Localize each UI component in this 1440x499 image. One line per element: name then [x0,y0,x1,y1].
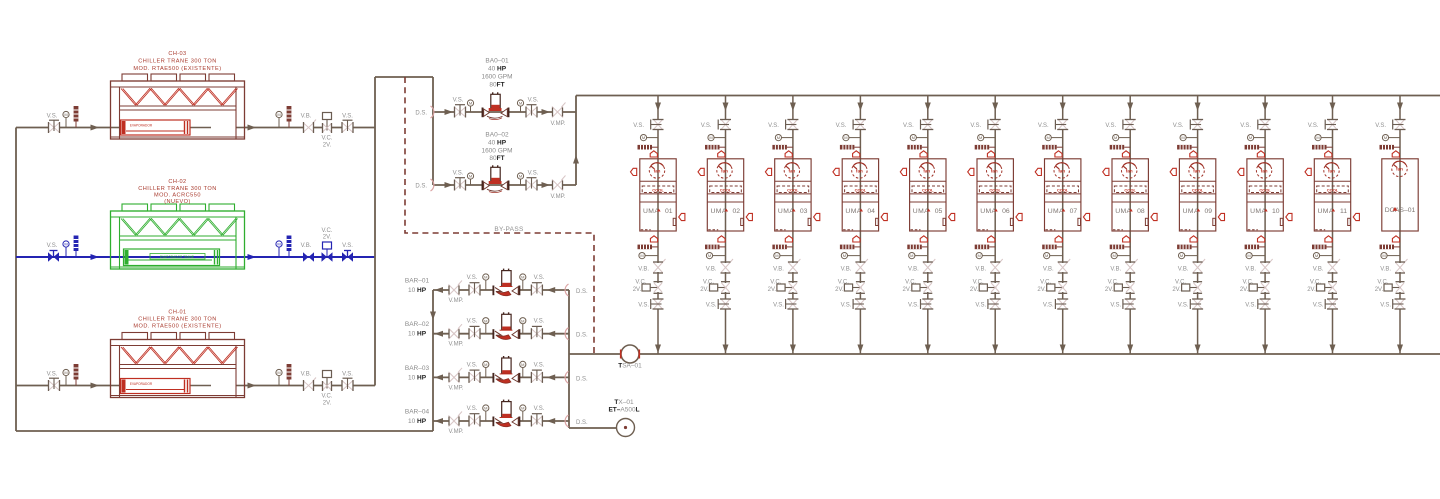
svg-text:UMA: UMA [980,208,996,215]
svg-text:M: M [844,135,847,140]
sensor UMA-11 return [1312,245,1333,250]
label BA0-02 data [481,132,512,163]
flow arrow out of branch UMA-06 [992,345,998,354]
svg-text:V.C.: V.C. [770,280,781,286]
instrument M BAR-04 discharge [483,405,489,421]
svg-text:M: M [1249,135,1252,140]
svg-text:M: M [521,406,524,411]
air arrow below UMA-09 [1190,236,1197,242]
instrument M UMA-01 return [639,253,658,259]
label V.C. 2V UMA-07 [1037,280,1051,294]
svg-text:COOL: COOL [1327,187,1339,192]
svg-text:COOL: COOL [720,187,732,192]
svg-text:V.C.: V.C. [703,280,714,286]
instrument M UMA-10 return [1246,253,1265,259]
wire CH-02 inlet/outlet pipe (blue) [16,256,375,258]
label TX-01 ET-A500L [608,399,639,414]
flow arrow BAR-01 suction [547,287,556,293]
svg-text:fan: fan [923,168,930,173]
valve V.S. CH-02 outlet [342,251,353,262]
label V.C. 2V UMA-09 [1172,280,1186,294]
valve V.S. CH-01 outlet [342,378,353,391]
valve V.S. BAR-02 discharge [469,326,480,339]
label V.C. 2V CH-02 [321,228,332,241]
valve V.B. CH-03 outlet [304,120,317,134]
instrument M UMA-07 return [1044,253,1063,259]
flow arrow out of branch UMA-02 [723,345,729,354]
svg-text:V.B.: V.B. [1043,267,1054,273]
instrument M BAR-01 suction [520,274,526,290]
flow arrow into branch UMA-01 [655,103,661,112]
pump BA0-02 [483,165,509,192]
pipe AHU branch UMA-09 [1197,96,1199,355]
svg-text:V.S.: V.S. [773,303,784,309]
pipe AHU branch UMA-05 [927,96,929,355]
svg-text:M: M [64,112,67,117]
svg-text:UMA: UMA [913,208,929,215]
wire pump suction drop [432,77,434,185]
valve V.S. CH-02 inlet [48,251,59,262]
air arrow left of UMA-11 [1305,168,1311,175]
svg-text:CHILLER TRANE 300 TON: CHILLER TRANE 300 TON [138,186,217,192]
svg-text:V.B.: V.B. [1245,267,1256,273]
instrument M CH-01 outlet [276,369,282,385]
svg-text:M: M [1113,253,1116,258]
valve V.S. UMA-06 return [988,299,1001,309]
svg-text:04: 04 [867,208,875,215]
svg-text:D.S.: D.S. [576,376,588,382]
air arrow left of UMA-02 [698,168,704,175]
flow arrow BAR-02 discharge [435,331,444,337]
valve V.S. UMA-01 return [651,299,664,309]
svg-text:V.B.: V.B. [908,267,919,273]
valve V.S. UMA-09 supply [1190,120,1203,130]
svg-text:M: M [708,253,711,258]
air arrow above UMA-02 [718,151,725,157]
svg-text:V.MP.: V.MP. [550,121,565,127]
valve V.MP. BA0-02 [552,176,566,191]
svg-text:V.S.: V.S. [1375,123,1386,129]
flow arrow out of CH-01 [248,383,257,389]
svg-text:V.MP.: V.MP. [448,298,463,304]
svg-text:V.S.: V.S. [970,123,981,129]
valve V.S. BAR-01 discharge [469,283,480,296]
air arrow left of UMA-04 [833,168,839,175]
svg-text:M: M [979,135,982,140]
svg-text:M: M [484,362,487,367]
valve V.B. UMA-07 [1057,259,1070,273]
svg-text:M: M [709,135,712,140]
svg-text:fan: fan [856,168,863,173]
sensor UMA-08 supply [1110,145,1131,150]
valve V.S. UMA-06 supply [988,120,1001,130]
sensor CH-02 inlet [74,236,79,258]
valve V.S. BAR-03 discharge [469,370,480,383]
svg-text:V.S.: V.S. [975,303,986,309]
wire BAR discharge collector [432,290,434,431]
svg-text:V.B.: V.B. [1313,267,1324,273]
svg-text:D.S.: D.S. [415,184,427,190]
svg-text:EVAPORADOR: EVAPORADOR [130,382,153,386]
flow arrow into branch UMA-08 [1127,103,1133,112]
valve V.B. UMA-01 [653,259,666,273]
air arrow right of UMA-10 [1286,213,1292,220]
svg-text:M: M [1045,253,1048,258]
instrument M CH-03 outlet [276,111,282,127]
svg-text:V.C.: V.C. [1040,280,1051,286]
chiller CH-02 [111,204,245,269]
instrument M BAR-01 discharge [483,274,489,290]
instrument M BA0-01 discharge [517,100,523,112]
instrument M UMA-07 supply [1045,135,1063,141]
svg-text:V.S.: V.S. [1308,123,1319,129]
valve V.S. UMA-05 return [921,299,934,309]
wire expansion tank line [569,427,616,429]
svg-text:fan: fan [1058,168,1065,173]
svg-text:V.S.: V.S. [467,275,478,281]
instrument M UMA-01 supply [640,135,658,141]
valve V.S. BAR-04 suction [531,414,542,427]
sensor UMA-07 supply [1042,145,1063,150]
wire collector top jog [375,76,433,78]
svg-text:07: 07 [1070,208,1078,215]
svg-text:V.S.: V.S. [638,303,649,309]
instrument M UMA-02 supply [708,135,726,141]
instrument M CH-02 inlet [63,241,69,257]
flow arrow into CH-02 [91,254,100,260]
valve V.C. 2V UMA-06 [979,282,1000,294]
wire top supply header [576,95,1440,97]
air arrow right of UMA-11 [1353,213,1359,220]
svg-text:fan: fan [1193,168,1200,173]
svg-text:CH-01: CH-01 [168,310,186,316]
svg-text:UMA: UMA [778,208,794,215]
valve V.S. DOAS-01 supply [1393,120,1406,130]
pump BAR-04 [493,400,519,427]
AHU unit UMA-01 [640,159,676,231]
wire left return riser [15,128,17,432]
svg-text:fan: fan [991,168,998,173]
valve V.MP. BAR-03 [449,368,463,383]
svg-text:M: M [519,101,522,106]
flow arrow into branch UMA-09 [1195,103,1201,112]
valve V.C. 2V UMA-10 [1249,282,1270,294]
wire CH-03 outlet pipe [245,127,376,129]
air arrow right of UMA-01 [679,213,685,220]
label V.C. 2V CH-03 [321,136,332,149]
svg-text:D.S.: D.S. [415,111,427,117]
valve V.B. DOAS-01 [1395,259,1408,273]
svg-text:V.S.: V.S. [467,319,478,325]
instrument M UMA-08 return [1111,253,1130,259]
svg-text:2V.: 2V. [903,287,912,293]
valve V.MP. BAR-01 [449,281,463,296]
label V.C. 2V UMA-08 [1105,280,1119,294]
svg-text:fan: fan [1126,168,1133,173]
svg-text:V.S.: V.S. [528,171,539,177]
pipe inside CH-01 [111,385,121,387]
chiller CH-01 [111,333,245,398]
svg-text:BA0–02: BA0–02 [485,132,509,139]
valve V.S. UMA-03 return [786,299,799,309]
svg-text:M: M [469,101,472,106]
label BAR-01 [405,278,430,295]
svg-text:M: M [521,362,524,367]
svg-text:M: M [484,406,487,411]
sensor CH-02 outlet [287,236,292,258]
instrument M UMA-11 supply [1315,135,1333,141]
air arrow below UMA-05 [920,236,927,242]
svg-text:V.C.: V.C. [838,280,849,286]
svg-text:M: M [1382,253,1385,258]
valve V.S. BA0-02 suction [455,178,466,191]
valve V.S. DOAS-01 return [1393,299,1406,309]
flow arrow out of branch UMA-08 [1127,345,1133,354]
wire pump BAR-04 line [433,420,569,422]
flow arrow BAR-04 suction [547,418,556,424]
valve V.B. CH-02 outlet [303,252,314,261]
flow arrow into branch UMA-05 [925,103,931,112]
wire pump BAR-03 line [433,376,569,378]
svg-text:V.S.: V.S. [342,243,353,249]
AHU unit UMA-05 [910,159,946,231]
flow arrow BA0-02 suction [445,182,454,188]
air arrow above UMA-01 [650,151,657,157]
air arrow right of UMA-09 [1218,213,1224,220]
valve V.S. UMA-02 supply [718,120,731,130]
instrument M CH-01 inlet [63,369,69,385]
svg-text:08: 08 [1137,208,1145,215]
valve V.S. UMA-07 supply [1055,120,1068,130]
pipe AHU branch UMA-02 [725,96,727,355]
svg-text:V.S.: V.S. [47,243,58,249]
svg-text:V.S.: V.S. [1178,303,1189,309]
sensor UMA-09 return [1177,245,1198,250]
svg-text:2V.: 2V. [1172,287,1181,293]
instrument M UMA-10 supply [1248,135,1266,141]
svg-text:V.MP.: V.MP. [550,194,565,200]
svg-text:TSA–01: TSA–01 [618,363,642,370]
svg-text:V.S.: V.S. [1173,123,1184,129]
svg-text:BY-PASS: BY-PASS [494,226,524,233]
wire return header left segment [569,353,621,355]
svg-text:V.MP.: V.MP. [448,342,463,348]
AHU unit UMA-09 [1179,159,1215,231]
pipe AHU branch UMA-04 [859,96,861,355]
svg-text:M: M [777,135,780,140]
svg-text:COOL: COOL [1259,187,1271,192]
svg-text:V.MP.: V.MP. [448,429,463,435]
flow arrow into branch UMA-03 [790,103,796,112]
flow arrow out of CH-03 [248,125,257,131]
flow arrow into branch UMA-02 [723,103,729,112]
flow arrow BAR-03 discharge [435,374,444,380]
label V.C. 2V CH-01 [321,394,332,407]
sensor UMA-10 supply [1245,145,1266,150]
sensor UMA-03 return [772,245,793,250]
svg-text:V.S.: V.S. [836,123,847,129]
instrument M UMA-09 return [1179,253,1198,259]
air arrow above UMA-03 [785,151,792,157]
svg-text:COOL: COOL [1124,187,1136,192]
valve V.C. 2V UMA-05 [912,282,933,294]
air arrow above UMA-06 [987,151,994,157]
AHU unit UMA-07 [1045,159,1081,231]
svg-text:2V.: 2V. [1375,287,1384,293]
sensor UMA-09 supply [1177,145,1198,150]
air arrow above UMA-09 [1190,151,1197,157]
svg-text:V.S.: V.S. [342,114,353,120]
svg-text:V.S.: V.S. [1313,303,1324,309]
svg-text:2V.: 2V. [835,287,844,293]
flow arrow out of branch UMA-01 [655,345,661,354]
flow arrow into branch UMA-10 [1262,103,1268,112]
valve V.S. BAR-04 discharge [469,414,480,427]
svg-text:V.C.: V.C. [1310,280,1321,286]
svg-text:(NUEVO): (NUEVO) [164,199,190,205]
svg-text:V.C.: V.C. [905,280,916,286]
svg-text:D.S.: D.S. [576,289,588,295]
valve V.S. CH-03 inlet [49,120,60,133]
AHU unit UMA-11 [1314,159,1350,231]
instrument M BAR-02 suction [520,318,526,334]
svg-text:M: M [1316,135,1319,140]
valve V.B. UMA-09 [1192,259,1205,273]
valve V.B. UMA-02 [720,259,733,273]
pipe AHU branch UMA-08 [1129,96,1131,355]
wire CH-01 outlet pipe [245,385,376,387]
label V.C. 2V UMA-10 [1240,280,1254,294]
sensor UMA-04 supply [840,145,861,150]
svg-text:MOD. RTAE500 (EXISTENTE): MOD. RTAE500 (EXISTENTE) [133,66,221,72]
valve V.C. 2V UMA-09 [1182,282,1203,294]
valve V.C. 2V UMA-03 [777,282,798,294]
flow arrow out of branch UMA-11 [1330,345,1336,354]
air arrow above UMA-05 [920,151,927,157]
svg-text:D.S.: D.S. [576,333,588,339]
valve V.C. 2V CH-01 outlet [323,371,332,392]
valve V.C. 2V UMA-07 [1047,282,1068,294]
flow arrow out of branch UMA-05 [925,345,931,354]
label V.C. 2V DOAS-01 [1375,280,1389,294]
instrument M CH-02 outlet [276,241,282,257]
svg-text:M: M [1047,135,1050,140]
svg-text:V.B.: V.B. [301,243,312,249]
svg-text:V.B.: V.B. [706,267,717,273]
flow arrow out of CH-02 [248,254,257,260]
svg-text:V.S.: V.S. [47,114,58,120]
svg-text:BAR–04: BAR–04 [405,409,430,416]
svg-text:2V.: 2V. [970,287,979,293]
svg-text:V.C.: V.C. [1175,280,1186,286]
valve V.C. 2V UMA-11 [1317,282,1338,294]
air arrow below UMA-11 [1325,236,1332,242]
air arrow above UMA-10 [1257,151,1264,157]
flow arrow BAR-01 discharge [435,287,444,293]
svg-text:V.C.: V.C. [1242,280,1253,286]
svg-text:V.S.: V.S. [706,303,717,309]
air arrow below DOAS-01 [1392,236,1399,242]
air arrow right of UMA-06 [1016,213,1022,220]
svg-text:DOAS–01: DOAS–01 [1385,207,1416,214]
svg-text:CHILLER TRANE 300 TON: CHILLER TRANE 300 TON [138,59,217,65]
instrument M BA0-02 suction [467,173,473,185]
svg-text:V.S.: V.S. [903,123,914,129]
svg-text:M: M [775,253,778,258]
air arrow below UMA-03 [785,236,792,242]
svg-text:2V.: 2V. [1307,287,1316,293]
svg-text:V.C.: V.C. [1377,280,1388,286]
valve V.S. BAR-02 suction [531,326,542,339]
svg-text:M: M [469,174,472,179]
flow arrow BAR-02 suction [547,331,556,337]
sensor UMA-04 return [840,245,861,250]
flow arrow BAR collector down [430,312,436,321]
svg-text:V.S.: V.S. [534,275,545,281]
valve V.C. 2V CH-03 outlet [323,113,332,134]
instrument M UMA-03 return [774,253,793,259]
instrument M DOAS-01 supply [1382,135,1400,141]
instrument M UMA-06 supply [978,135,996,141]
air arrow above UMA-07 [1055,151,1062,157]
svg-text:BAR–03: BAR–03 [405,365,430,372]
valve V.S. UMA-10 supply [1258,120,1271,130]
pipe AHU branch UMA-06 [994,96,996,355]
svg-text:CHILLER TRANE 300 TON: CHILLER TRANE 300 TON [138,317,217,323]
pipe AHU branch UMA-07 [1062,96,1064,355]
valve V.S. UMA-10 return [1258,299,1271,309]
air arrow right of UMA-02 [746,213,752,220]
svg-text:V.S.: V.S. [908,303,919,309]
wire supply riser [575,96,577,186]
air separator TSA-01 [621,345,640,363]
valve V.C. 2V UMA-02 [710,282,731,294]
label CH-03 title [133,51,221,72]
svg-text:UMA: UMA [1250,208,1266,215]
svg-text:UMA: UMA [1183,208,1199,215]
svg-text:CH-02: CH-02 [168,179,186,185]
svg-text:2V.: 2V. [1240,287,1249,293]
air arrow right of UMA-08 [1151,213,1157,220]
svg-text:UMA: UMA [643,208,659,215]
valve V.S. UMA-07 return [1055,299,1068,309]
svg-text:M: M [912,135,915,140]
svg-text:1600 GPM: 1600 GPM [481,74,512,81]
label BAR-02 [405,321,430,338]
svg-text:V.B.: V.B. [301,372,312,378]
label V.C. 2V UMA-05 [903,280,917,294]
svg-text:V.B.: V.B. [1380,267,1391,273]
AHU unit UMA-02 [707,159,743,231]
wire pump BA0-02 line [433,184,576,186]
svg-text:V.S.: V.S. [342,372,353,378]
instrument M UMA-08 supply [1113,135,1131,141]
air arrow left of UMA-09 [1170,168,1176,175]
flow arrow into branch UMA-11 [1330,103,1336,112]
svg-text:COOL: COOL [1192,187,1204,192]
svg-text:2V.: 2V. [1037,287,1046,293]
pipe AHU branch UMA-01 [657,96,659,355]
svg-text:V.S.: V.S. [453,98,464,104]
svg-text:UMA: UMA [711,208,727,215]
air arrow left of UMA-08 [1103,168,1109,175]
sensor DOAS-01 return [1380,245,1401,250]
valve V.B. UMA-08 [1125,259,1138,273]
svg-text:V.B.: V.B. [773,267,784,273]
air arrow left of UMA-03 [765,168,771,175]
flow arrow BA0-02 discharge [542,182,551,188]
instrument M UMA-09 supply [1180,135,1198,141]
